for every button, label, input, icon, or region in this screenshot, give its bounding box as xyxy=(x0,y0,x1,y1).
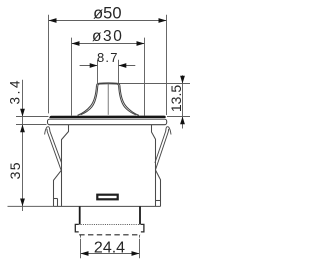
left wall with chamfer xyxy=(62,125,69,207)
trumpet / horn on top xyxy=(78,83,139,116)
right snap clip xyxy=(155,127,171,170)
dimension 13.5 xyxy=(119,75,190,128)
hidden dotted line xyxy=(81,224,139,226)
hidden dashed bottom xyxy=(79,234,141,236)
outer right wall xyxy=(120,85,139,115)
svg-text:35: 35 xyxy=(7,161,23,179)
svg-text:24.4: 24.4 xyxy=(94,239,125,256)
plug feet xyxy=(75,224,144,232)
left snap clip xyxy=(45,127,62,170)
membrane gasket on flange xyxy=(49,116,165,119)
svg-text:8.7: 8.7 xyxy=(97,50,119,65)
right wall with chamfer xyxy=(152,125,156,207)
svg-text:13.5: 13.5 xyxy=(168,85,184,112)
right fin xyxy=(156,170,161,206)
svg-text:3.4: 3.4 xyxy=(8,78,23,105)
outer left wall xyxy=(78,85,97,115)
left fin xyxy=(54,170,62,206)
inner right wall xyxy=(119,86,136,115)
inner left wall xyxy=(81,86,98,115)
dimension 3.4 / 35 shared line xyxy=(8,80,54,211)
bottom plug xyxy=(80,206,140,224)
dimension ø30 xyxy=(72,38,145,116)
trumpet centerline xyxy=(107,83,109,115)
dimension 8.7 xyxy=(80,60,136,83)
flange (ø50 disc) xyxy=(48,119,167,125)
body outline xyxy=(54,125,161,207)
bottom edge xyxy=(54,205,161,207)
dimension ø50 xyxy=(49,15,167,115)
top rim outer xyxy=(97,83,120,85)
top rim inner xyxy=(98,84,119,86)
svg-text:ø50: ø50 xyxy=(93,5,121,23)
dimension 24.4 xyxy=(81,235,140,258)
svg-text:ø30: ø30 xyxy=(92,28,124,45)
slot window xyxy=(97,195,117,200)
